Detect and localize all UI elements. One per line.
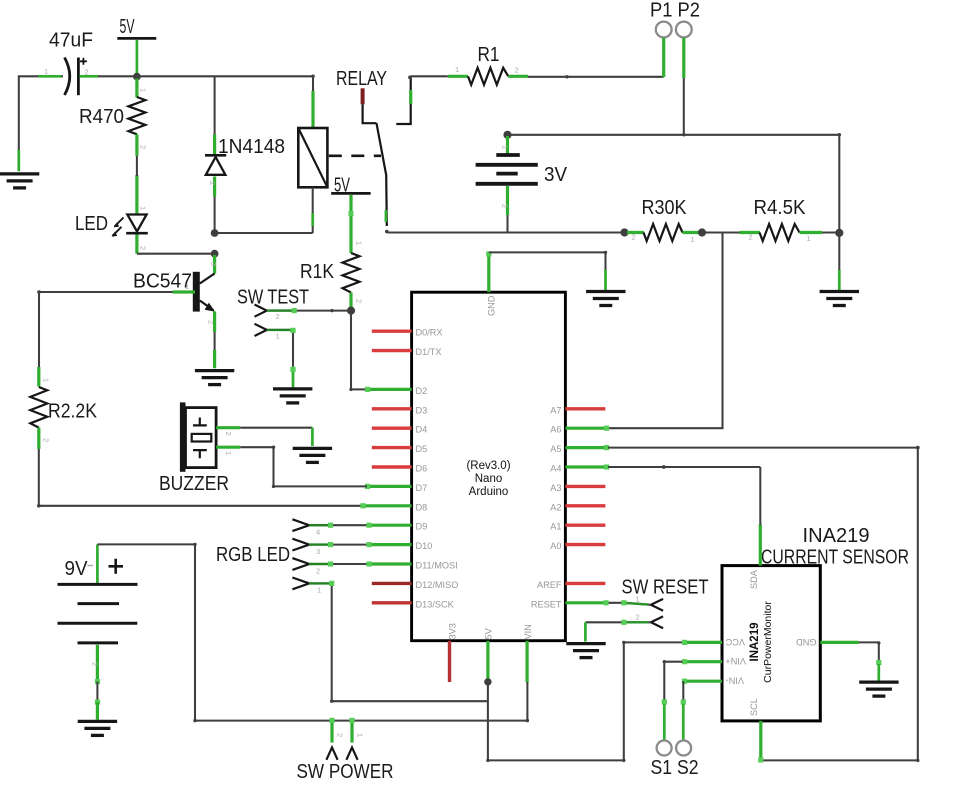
- ground (SW RESET): [566, 644, 605, 658]
- wire BC547 base left: [37, 290, 195, 386]
- node C junction (R1K/SW TEST/D2): [347, 307, 355, 315]
- wire 9V plus to VIN: [97, 543, 529, 723]
- ground (SW TEST): [273, 389, 312, 403]
- svg-text:VIN+: VIN+: [725, 656, 746, 666]
- wire LED to node B: [137, 235, 215, 254]
- svg-text:D3: D3: [416, 405, 428, 415]
- svg-text:BC547: BC547: [133, 271, 192, 293]
- pin 3V3: [448, 623, 458, 682]
- wire SW TEST pin2 to node C: [267, 308, 351, 313]
- svg-text:1: 1: [356, 733, 365, 737]
- svg-text:2: 2: [515, 66, 519, 75]
- battery BT1 3V: [476, 136, 568, 215]
- pin D12/MISO: [372, 580, 459, 590]
- ground (9V): [78, 721, 117, 735]
- svg-text:BUZZER: BUZZER: [159, 473, 229, 495]
- svg-text:D2: D2: [416, 386, 428, 396]
- connector P2: [676, 22, 692, 78]
- relay K1: [298, 68, 410, 226]
- switch SW TEST: [237, 286, 309, 340]
- LED D1: [75, 206, 148, 250]
- resistor R1K: [300, 253, 364, 309]
- wire cap right to node A: [80, 75, 137, 77]
- ground (cap): [0, 174, 39, 188]
- svg-text:VCC: VCC: [725, 637, 745, 647]
- wire RESET pin to SW RESET pin1: [603, 600, 651, 605]
- svg-text:A7: A7: [550, 405, 561, 415]
- wire buzzer pin1 to D7: [240, 446, 367, 489]
- pin SDA: [749, 525, 760, 590]
- svg-text:R470: R470: [79, 106, 124, 128]
- ground (BC547 emitter): [195, 371, 234, 385]
- svg-text:5V: 5V: [120, 16, 135, 38]
- wire SW RESET pin2 to ground: [585, 620, 651, 642]
- node D junction: [620, 228, 628, 236]
- pin D4: [372, 425, 427, 435]
- svg-text:VIN: VIN: [523, 624, 533, 639]
- svg-text:2: 2: [632, 233, 636, 242]
- pin GND (top): [486, 251, 496, 316]
- wire D2 from node C: [349, 311, 367, 391]
- ground (Arduino GND): [586, 292, 625, 306]
- svg-text:A3: A3: [550, 483, 561, 493]
- svg-text:P1 P2: P1 P2: [650, 0, 700, 22]
- svg-text:R1K: R1K: [300, 261, 335, 283]
- svg-text:1N4148: 1N4148: [218, 136, 285, 158]
- wire net 3V horizontal: [503, 131, 839, 139]
- svg-text:2: 2: [139, 246, 148, 250]
- connector S1: [657, 741, 672, 756]
- wire node F to ground: [838, 233, 840, 290]
- wire 3V battery to net R30K: [506, 215, 508, 233]
- wire relay lever to net R30K: [385, 230, 625, 234]
- wire R470 to LED: [135, 134, 138, 214]
- svg-text:1: 1: [691, 235, 695, 244]
- wire buzzer pin2 to ground: [240, 428, 312, 446]
- svg-text:GND: GND: [487, 295, 497, 316]
- svg-text:1: 1: [42, 378, 51, 382]
- wire RGB pin4 to D9: [309, 523, 371, 528]
- wire VIN- to S2: [681, 681, 686, 740]
- svg-text:RGB LED: RGB LED: [216, 544, 290, 566]
- pin D5: [372, 444, 427, 454]
- svg-text:1: 1: [355, 241, 364, 245]
- svg-text:AREF: AREF: [537, 580, 562, 590]
- svg-text:3V3: 3V3: [448, 623, 458, 639]
- svg-text:RESET: RESET: [531, 599, 562, 609]
- pin A6: [550, 425, 609, 435]
- label S1 S2: [651, 757, 699, 779]
- node F junction: [835, 229, 843, 237]
- wire BC547 emitter to ground: [213, 312, 216, 369]
- svg-text:D8: D8: [416, 502, 428, 512]
- svg-text:(Rev3.0): (Rev3.0): [466, 460, 510, 472]
- svg-text:A6: A6: [550, 425, 561, 435]
- wire node E branch down to A6: [608, 233, 723, 429]
- svg-text:CURRENT SENSOR: CURRENT SENSOR: [761, 546, 909, 568]
- label INA219 CURRENT SENSOR: [761, 525, 909, 568]
- svg-text:2: 2: [42, 438, 51, 442]
- svg-text:2: 2: [749, 233, 753, 242]
- svg-text:S1 S2: S1 S2: [651, 757, 699, 779]
- pin D3: [372, 405, 427, 415]
- svg-text:3: 3: [209, 262, 218, 266]
- svg-text:1: 1: [317, 586, 321, 595]
- wire 5V pin to VCC: [486, 641, 683, 762]
- wire node B to BC547 collector: [209, 255, 218, 274]
- wire RGB pin1 to 5V net: [309, 581, 488, 703]
- svg-text:A2: A2: [550, 502, 561, 512]
- pin D8: [360, 502, 427, 512]
- op-amp U1 Arduino Nano body: [412, 292, 566, 641]
- svg-text:INA219: INA219: [803, 525, 870, 547]
- pin RESET: [531, 599, 608, 609]
- svg-text:2: 2: [636, 613, 640, 622]
- pin VIN: [523, 624, 533, 682]
- svg-text:2: 2: [224, 432, 233, 436]
- svg-text:Nano: Nano: [475, 473, 503, 485]
- svg-text:2: 2: [276, 312, 280, 321]
- pin A0: [550, 541, 605, 551]
- svg-text:3: 3: [316, 547, 320, 556]
- svg-text:D7: D7: [416, 483, 428, 493]
- svg-text:SDA: SDA: [749, 569, 759, 589]
- wire INA GND to ground: [859, 641, 882, 680]
- svg-text:LED: LED: [75, 213, 108, 235]
- capacitor C1 47uF: [44, 30, 93, 96]
- svg-text:D9: D9: [416, 522, 428, 532]
- wire node A to relay drop: [137, 75, 315, 128]
- pin SCL: [749, 698, 761, 760]
- wire SW TEST pin1 to ground: [267, 328, 296, 388]
- buzzer BZ1: [159, 402, 240, 495]
- svg-text:2: 2: [208, 181, 217, 185]
- svg-text:D10: D10: [416, 541, 433, 551]
- pin AREF: [537, 580, 605, 590]
- resistor R4.5K: [754, 197, 840, 243]
- wire VIN+ to S1: [662, 660, 683, 740]
- diode D2 1N4148: [205, 76, 285, 233]
- wire P2 down to net 3V: [682, 78, 685, 137]
- battery BT2 9V: [58, 544, 138, 681]
- pin D0/RX: [372, 328, 443, 338]
- ground (INA219): [859, 682, 898, 696]
- svg-text:R2.2K: R2.2K: [48, 401, 98, 423]
- svg-text:D11/MOSI: D11/MOSI: [416, 561, 458, 571]
- svg-text:SCL: SCL: [749, 698, 759, 716]
- pin A3: [550, 483, 605, 493]
- resistor R1: [468, 44, 528, 85]
- pin GND (INA219): [796, 637, 859, 647]
- wire 5V to node A: [136, 40, 139, 77]
- wire right vertical to R4.5K node: [838, 133, 842, 233]
- pin D13/SCK: [372, 599, 455, 609]
- svg-text:SW POWER: SW POWER: [297, 761, 394, 783]
- svg-text:1: 1: [636, 595, 640, 604]
- node E junction: [698, 228, 706, 236]
- svg-text:1: 1: [807, 234, 811, 243]
- svg-text:Arduino: Arduino: [469, 486, 509, 498]
- switch SW RESET: [622, 577, 709, 629]
- svg-text:D5: D5: [416, 444, 428, 454]
- svg-text:1: 1: [224, 451, 233, 455]
- wire relay contact to R1: [408, 65, 468, 79]
- pin D9: [367, 522, 428, 532]
- wire cap left to ground: [19, 76, 63, 171]
- switch SW POWER: [297, 733, 394, 783]
- svg-text:2: 2: [316, 566, 320, 575]
- wire R1 to P1: [528, 75, 664, 78]
- node G junction (5V pin): [484, 678, 491, 685]
- svg-text:1: 1: [139, 206, 148, 210]
- label P1 P2: [650, 0, 700, 22]
- wire 9V minus to ground: [95, 679, 100, 720]
- wire A5 to SCL: [608, 446, 920, 763]
- svg-text:1: 1: [139, 88, 148, 92]
- svg-text:R30K: R30K: [642, 197, 688, 219]
- svg-text:2: 2: [501, 204, 510, 208]
- svg-text:A4: A4: [550, 464, 561, 474]
- connector S2: [676, 741, 691, 756]
- svg-text:1: 1: [455, 65, 459, 74]
- pin D1/TX: [372, 347, 442, 357]
- pin VIN-: [682, 675, 744, 685]
- svg-text:1: 1: [44, 67, 48, 76]
- pin D10: [367, 541, 433, 551]
- svg-text:A1: A1: [550, 522, 561, 532]
- connector RGB LED: [216, 519, 321, 594]
- svg-text:9V: 9V: [65, 558, 89, 580]
- svg-text:1: 1: [185, 282, 189, 291]
- svg-text:D6: D6: [416, 464, 428, 474]
- svg-text:D4: D4: [416, 425, 428, 435]
- svg-text:2: 2: [336, 733, 345, 737]
- svg-text:1: 1: [276, 332, 280, 341]
- pin D7: [365, 483, 427, 493]
- svg-text:1: 1: [501, 145, 510, 149]
- wire node E to R4.5K: [702, 233, 760, 242]
- svg-text:47uF: 47uF: [49, 30, 93, 52]
- wire RGB pin3 to D10: [309, 542, 371, 547]
- svg-text:R1: R1: [478, 44, 500, 66]
- ground (buzzer): [293, 448, 332, 462]
- svg-text:D0/RX: D0/RX: [416, 328, 443, 338]
- pin A5: [550, 444, 609, 454]
- transistor Q1 BC547: [133, 271, 216, 325]
- pin VIN+: [682, 656, 746, 666]
- svg-text:CurPowerMonitor: CurPowerMonitor: [762, 601, 774, 683]
- ground (R4.5K): [820, 292, 859, 306]
- pin 5V (bottom): [484, 627, 494, 681]
- connector P1: [656, 22, 672, 77]
- resistor R30K: [627, 197, 700, 244]
- wire A4 to SDA: [608, 465, 760, 525]
- pin D11/MOSI: [367, 561, 458, 571]
- pin A4: [550, 464, 609, 474]
- svg-text:A5: A5: [550, 444, 561, 454]
- resistor R2.2K: [30, 387, 97, 449]
- power 5V (relay): [331, 174, 370, 196]
- pin A1: [550, 522, 605, 532]
- wire 5V to R1K: [349, 195, 364, 253]
- power 5V (top): [117, 16, 156, 39]
- pin VCC: [682, 637, 745, 647]
- pin D6: [372, 464, 427, 474]
- wire GND pin to ground: [489, 251, 607, 290]
- svg-text:D12/MISO: D12/MISO: [416, 580, 459, 590]
- svg-text:SW TEST: SW TEST: [237, 286, 309, 308]
- svg-text:GND: GND: [796, 637, 817, 647]
- svg-text:VIN-: VIN-: [726, 675, 744, 685]
- wire RGB pin2 to D11: [309, 561, 371, 566]
- svg-text:D1/TX: D1/TX: [416, 347, 442, 357]
- svg-text:3V: 3V: [544, 164, 568, 186]
- node B junctions: [211, 229, 219, 258]
- wire R2.2K to D8: [37, 449, 366, 508]
- svg-text:D13/SCK: D13/SCK: [416, 599, 455, 609]
- pin A7: [550, 405, 605, 415]
- svg-text:4: 4: [316, 528, 320, 537]
- pin D2: [365, 386, 427, 396]
- svg-text:RELAY: RELAY: [336, 68, 387, 90]
- svg-text:2: 2: [139, 145, 148, 149]
- wire relay coil bottom to node B: [215, 187, 313, 233]
- node A junction: [133, 73, 141, 81]
- resistor R470: [79, 79, 148, 150]
- svg-text:2: 2: [355, 299, 364, 303]
- diagram INA219 module U2: [722, 566, 820, 721]
- svg-text:INA219: INA219: [749, 623, 761, 662]
- svg-text:2: 2: [91, 662, 100, 666]
- svg-text:5V: 5V: [484, 627, 494, 639]
- pin A2: [550, 502, 605, 512]
- svg-text:A0: A0: [550, 541, 561, 551]
- svg-text:R4.5K: R4.5K: [754, 197, 807, 219]
- wire SW POWER pins up to VIN net: [329, 718, 354, 743]
